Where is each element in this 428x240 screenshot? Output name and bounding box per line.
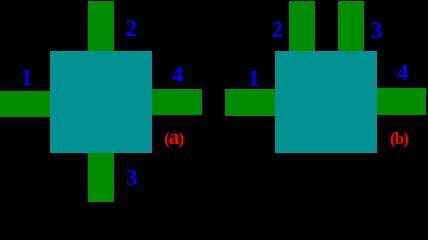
junction (a): port label 3 <box>126 166 138 189</box>
caption (b) <box>390 130 408 147</box>
junction (a): port label 2 <box>126 17 138 40</box>
junction (b): port label 2 <box>272 18 284 41</box>
junction (a): port 2 arm (top) <box>88 1 114 52</box>
caption (a) <box>164 126 183 148</box>
junction (b): port 2 arm (top-left) <box>289 1 315 52</box>
junction (a): body square <box>50 51 152 153</box>
junction (b): port label 1 <box>248 67 260 90</box>
junction (b): port label 4 <box>397 61 409 84</box>
junction (a): port 3 arm (bottom) <box>88 152 114 202</box>
junction (b): port 3 arm (top-right) <box>338 1 364 52</box>
junction (b): port label 3 <box>371 19 383 42</box>
junction (a): port 1 arm (left) <box>0 91 51 117</box>
junction (a): port 4 arm (right) <box>151 89 202 115</box>
junction (a): port label 4 <box>172 63 184 86</box>
junction (b): port 1 arm (left) <box>225 89 276 116</box>
junction (b): body square <box>275 51 377 153</box>
junction (a): port label 1 <box>21 66 33 89</box>
junction (b): port 4 arm (right) <box>376 88 426 115</box>
